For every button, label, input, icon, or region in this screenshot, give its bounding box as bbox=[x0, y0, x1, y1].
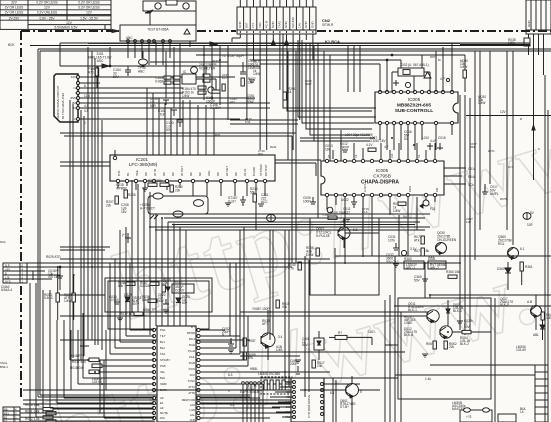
svg-text:R360: R360 bbox=[404, 257, 412, 261]
svg-text:107k: 107k bbox=[388, 238, 395, 242]
svg-text:E1: E1 bbox=[160, 401, 164, 405]
svg-text:BLK-1: BLK-1 bbox=[408, 308, 417, 312]
bus verticals from connector to L004 elbows bbox=[183, 46, 228, 156]
label 3151 MD6.1E5-T1 bbox=[88, 52, 112, 63]
svg-text:BST: BST bbox=[245, 22, 249, 28]
R030 resistor right of IC005 bbox=[460, 55, 468, 92]
svg-text:0.068: 0.068 bbox=[155, 79, 163, 83]
svg-text:ACC: ACC bbox=[261, 200, 268, 204]
svg-text:1C?: 1C? bbox=[508, 165, 514, 169]
svg-text:R016 FF0: R016 FF0 bbox=[70, 354, 84, 358]
svg-text:NC: NC bbox=[216, 172, 220, 176]
svg-text:BL2: BL2 bbox=[160, 346, 165, 350]
svg-text:B/W-4: B/W-4 bbox=[0, 365, 8, 369]
node wire y=58 bbox=[60, 64, 260, 68]
svg-text:S1: S1 bbox=[417, 154, 421, 158]
svg-text:R?: R? bbox=[338, 331, 342, 335]
svg-text:F21: F21 bbox=[430, 207, 436, 211]
svg-text:C3: C3 bbox=[354, 154, 358, 158]
label 8421 1k 17M bbox=[240, 381, 259, 394]
svg-text:PG1: PG1 bbox=[160, 328, 166, 332]
svg-text:1Ck: 1Ck bbox=[468, 183, 474, 187]
connector top stubs bbox=[240, 0, 313, 7]
svg-text:3.4: 3.4 bbox=[278, 335, 283, 339]
svg-text:0.L6: 0.L6 bbox=[362, 210, 368, 214]
bottom-left cluster frame bbox=[60, 278, 212, 329]
svg-text:R361: R361 bbox=[525, 265, 533, 269]
svg-text:(U. 567-605-1): (U. 567-605-1) bbox=[408, 63, 429, 67]
svg-text:PG/N: PG/N bbox=[189, 367, 195, 371]
svg-text:1/4W: 1/4W bbox=[182, 94, 189, 98]
bottom middle pin-row connector bbox=[242, 367, 265, 422]
svg-text:1.4k: 1.4k bbox=[425, 377, 431, 381]
svg-text:16V: 16V bbox=[121, 210, 128, 214]
svg-text:47k 1k: 47k 1k bbox=[48, 275, 58, 279]
svg-text:D360: D360 bbox=[497, 267, 505, 271]
svg-text:SYS: SYS bbox=[5, 279, 11, 283]
svg-text:CLR: CLR bbox=[190, 418, 195, 422]
svg-text:AF DET: AF DET bbox=[225, 166, 229, 176]
svg-text:GND: GND bbox=[284, 21, 288, 29]
svg-text:0.2V UNLESS: 0.2V UNLESS bbox=[37, 10, 57, 14]
svg-text:R051 TP: R051 TP bbox=[143, 308, 156, 312]
bottom horizontals bbox=[23, 340, 300, 404]
svg-text:R087: R087 bbox=[248, 339, 256, 343]
svg-text:0.2V OR LESS: 0.2V OR LESS bbox=[36, 1, 57, 5]
voltage table bbox=[0, 0, 111, 30]
svg-text:D029: D029 bbox=[124, 293, 132, 297]
svg-text:50V: 50V bbox=[464, 325, 471, 329]
svg-text:#SS: #SS bbox=[70, 96, 76, 100]
svg-text:4.P: 4.P bbox=[440, 77, 445, 81]
wires below IC005 to CHAPA bbox=[300, 125, 452, 150]
svg-text:R0?5: R0?5 bbox=[500, 197, 507, 201]
svg-text:3.3 50V: 3.3 50V bbox=[210, 106, 222, 110]
svg-text:5: 5 bbox=[360, 390, 362, 394]
svg-text:68k: 68k bbox=[118, 284, 124, 288]
extra mid rails bbox=[27, 230, 309, 397]
svg-text:AF IN: AF IN bbox=[243, 169, 247, 176]
horizontal bus top bbox=[8, 42, 530, 47]
svg-text:AT OUT: AT OUT bbox=[180, 166, 184, 176]
box around Q003 bbox=[310, 218, 379, 295]
svg-text:SCE: SCE bbox=[135, 170, 139, 176]
svg-text:L010: L010 bbox=[422, 136, 429, 140]
svg-text:H-P RECT: H-P RECT bbox=[140, 206, 155, 210]
CHAPA bottom pin drops bbox=[345, 197, 417, 263]
svg-text:B IN: B IN bbox=[117, 171, 121, 176]
svg-text:TAA: TAA bbox=[160, 352, 165, 356]
C156 cluster bbox=[222, 54, 256, 86]
svg-text:ABL: ABL bbox=[533, 333, 539, 337]
thick 12V rail right bbox=[88, 43, 530, 44]
svg-text:1/4W: 1/4W bbox=[460, 65, 467, 69]
svg-text:MB88Z02H-605: MB88Z02H-605 bbox=[397, 103, 431, 109]
svg-text:FZ1: FZ1 bbox=[435, 187, 439, 192]
svg-text:R044: R044 bbox=[468, 175, 476, 179]
svg-text:50?: 50? bbox=[182, 301, 188, 305]
svg-text:200P: 200P bbox=[290, 362, 297, 366]
C067 R017 bbox=[290, 359, 325, 374]
wires below IC201 pins bbox=[118, 182, 265, 230]
bottom resistor rows bbox=[20, 403, 155, 422]
L004 elbow bus into CHAPA region bbox=[298, 40, 376, 141]
nested frame lines mid-left bbox=[60, 43, 180, 360]
svg-text:C?D RGB DRIVE: C?D RGB DRIVE bbox=[307, 395, 311, 418]
ground symbols below IC201 bbox=[142, 186, 231, 206]
svg-text:I1: I1 bbox=[73, 86, 76, 90]
svg-text:6.4: 6.4 bbox=[330, 391, 335, 395]
svg-text:32V: 32V bbox=[11, 1, 18, 5]
IC201 to CHAPA link wires bbox=[203, 39, 360, 372]
horizontal bundle above bottom cluster bbox=[23, 214, 430, 390]
right bottom tall box bbox=[516, 345, 548, 422]
svg-text:RESP FOR: RESP FOR bbox=[182, 398, 195, 402]
svg-text:PAL3: PAL3 bbox=[189, 337, 196, 341]
svg-text:SCK: SCK bbox=[190, 373, 196, 377]
svg-text:16V: 16V bbox=[380, 139, 387, 143]
svg-text:1AV: 1AV bbox=[297, 23, 301, 28]
svg-text:NC: NC bbox=[171, 172, 175, 176]
svg-text:VC-FILTER: VC-FILTER bbox=[199, 66, 216, 70]
svg-text:NC: NC bbox=[162, 172, 166, 176]
svg-text:SITW-R: SITW-R bbox=[322, 23, 334, 27]
svg-text:ON-SCREEN: ON-SCREEN bbox=[437, 238, 457, 242]
svg-text:GND: GND bbox=[238, 21, 242, 29]
D360 R361 diode bbox=[497, 262, 533, 290]
bottom right boxes bbox=[330, 377, 526, 422]
svg-text:NC: NC bbox=[144, 172, 148, 176]
Q003 transistor H-PULSE bbox=[316, 211, 358, 248]
horizontals upper mid to IC005 bbox=[196, 54, 465, 124]
resistor P150 bbox=[88, 66, 99, 88]
Q360 RGL transistor bbox=[498, 235, 525, 260]
C017 50V AMP label right bbox=[478, 95, 499, 196]
svg-text:C/A: C/A bbox=[390, 153, 394, 158]
C052 R087 R088 cluster bbox=[222, 327, 256, 360]
IC201 left exit wires bbox=[60, 162, 110, 166]
svg-text:IC201: IC201 bbox=[136, 157, 149, 162]
svg-text:A#: A# bbox=[160, 396, 164, 400]
svg-text:15k: 15k bbox=[142, 298, 148, 302]
right mid rails bbox=[460, 51, 548, 340]
svg-text:SIRR: SIRR bbox=[160, 382, 167, 386]
svg-text:B2 YTHS GB#/F-15EX: B2 YTHS GB#/F-15EX bbox=[61, 93, 65, 119]
svg-text:U: U bbox=[74, 117, 76, 121]
S150 33uH label bbox=[150, 54, 244, 120]
svg-text:50V: 50V bbox=[166, 128, 173, 132]
svg-text:B2: B2 bbox=[4, 415, 8, 419]
svg-text:100P: 100P bbox=[303, 199, 310, 203]
svg-text:5.6k: 5.6k bbox=[245, 120, 251, 124]
plus cap symbol left bbox=[122, 233, 131, 243]
IC filter cluster right of left block bbox=[155, 63, 216, 103]
svg-text:1/4W: 1/4W bbox=[478, 101, 485, 105]
svg-text:R: R bbox=[520, 117, 522, 121]
bottom-right RGB IC bbox=[270, 378, 336, 422]
svg-text:VD1: VD1 bbox=[258, 22, 262, 28]
svg-text:GND: GND bbox=[527, 20, 531, 28]
svg-text:4.7: 4.7 bbox=[384, 145, 389, 149]
Q017 bottom right transistor bbox=[500, 295, 542, 330]
components above CHAPA bbox=[325, 130, 446, 159]
svg-text:SOUND: SOUND bbox=[291, 16, 295, 28]
svg-text:R051: R051 bbox=[408, 185, 412, 192]
capacitor C154 bbox=[113, 66, 131, 79]
svg-text:SERVO DRIVE CIRCUIT: SERVO DRIVE CIRCUIT bbox=[56, 85, 60, 119]
svg-text:1/4W: 1/4W bbox=[64, 299, 71, 303]
R360 D081 boxes bbox=[404, 257, 460, 282]
svg-text:VAL: VAL bbox=[160, 370, 166, 374]
svg-text:BB: BB bbox=[4, 407, 8, 411]
left edge labels bbox=[0, 240, 8, 369]
svg-text:PG/B: PG/B bbox=[189, 361, 195, 365]
svg-text:ST-B+: ST-B+ bbox=[340, 405, 349, 409]
svg-text:ATTU: ATTU bbox=[188, 385, 195, 389]
svg-text:GND: GND bbox=[271, 21, 275, 29]
5V labels bbox=[403, 211, 535, 227]
watermark bbox=[30, 96, 551, 422]
vertical wires left column bundle bbox=[88, 47, 102, 350]
svg-text:473: 473 bbox=[230, 100, 235, 104]
svg-text:R017 560: R017 560 bbox=[72, 360, 86, 364]
caps right of IC201: ST16 C211 bbox=[228, 187, 269, 206]
R072 R073 resistors bbox=[414, 235, 435, 259]
IC005 CX795B CHAPA-DISPRA bbox=[321, 153, 444, 196]
svg-text:L/10: L/10 bbox=[190, 403, 196, 407]
svg-text:AT IN: AT IN bbox=[153, 169, 157, 176]
svg-text:R205 220: R205 220 bbox=[148, 179, 162, 183]
svg-text:103-69: 103-69 bbox=[516, 348, 526, 352]
top right connector bbox=[466, 0, 551, 180]
svg-text:6.3: 6.3 bbox=[230, 403, 235, 407]
svg-text:0.8V - 25V: 0.8V - 25V bbox=[39, 16, 55, 20]
C018 cap cluster left bbox=[48, 266, 63, 290]
svg-text:RA3: RA3 bbox=[0, 240, 6, 244]
svg-text:#10: #10 bbox=[160, 416, 165, 420]
svg-text:1/38E: 1/38E bbox=[404, 321, 412, 325]
inner frame around IC201 bbox=[60, 110, 296, 360]
svg-text:4.LP: 4.LP bbox=[430, 139, 437, 143]
svg-text:10E: 10E bbox=[546, 316, 551, 320]
long horizontal rails mid bbox=[27, 227, 551, 316]
svg-text:AF?: AF? bbox=[262, 322, 268, 326]
svg-text:10 50V: 10 50V bbox=[109, 298, 120, 302]
svg-text:D081: D081 bbox=[428, 257, 436, 261]
svg-text:5/16A-4: 5/16A-4 bbox=[1, 288, 12, 292]
svg-text:12V: 12V bbox=[86, 10, 93, 14]
Q601 transistor bbox=[300, 376, 362, 422]
svg-text:12V: 12V bbox=[71, 75, 76, 79]
C031 C032 caps bbox=[386, 235, 417, 264]
svg-text:2V OR LESS: 2V OR LESS bbox=[5, 10, 24, 14]
main frame double border bbox=[38, 49, 551, 397]
svg-text:BLK: BLK bbox=[160, 376, 165, 380]
svg-text:103: 103 bbox=[222, 76, 227, 80]
tall IC right pin stubs bbox=[200, 330, 380, 418]
svg-text:MUTE: MUTE bbox=[160, 411, 168, 415]
svg-text:SYSTEM: SYSTEM bbox=[259, 164, 263, 176]
svg-text:4.1V: 4.1V bbox=[366, 143, 373, 147]
svg-text:SUB-CONTROLL: SUB-CONTROLL bbox=[395, 108, 433, 114]
cluster components R055 R057 R030 bbox=[118, 278, 194, 293]
svg-text:B.GND: B.GND bbox=[252, 167, 256, 176]
svg-text:STD-BY: STD-BY bbox=[160, 358, 170, 362]
svg-text:R0?1: R0?1 bbox=[430, 55, 437, 59]
test point TP15 bbox=[138, 59, 148, 73]
left rotated IC block bbox=[54, 74, 80, 122]
svg-text:3.3/50: 3.3/50 bbox=[370, 139, 379, 143]
svg-text:22k: 22k bbox=[106, 203, 112, 207]
svg-text:BLK-1: BLK-1 bbox=[453, 309, 462, 313]
svg-text:(+): (+) bbox=[122, 233, 126, 237]
svg-text:2V OR LESS: 2V OR LESS bbox=[5, 6, 24, 10]
svg-text:R030 1.8k: R030 1.8k bbox=[25, 403, 40, 407]
svg-text:ABC: ABC bbox=[138, 69, 145, 73]
tall IC left pin stubs bbox=[70, 330, 154, 418]
right edge resistor diode cluster bbox=[533, 312, 551, 340]
svg-text:0.2V OR LESS: 0.2V OR LESS bbox=[78, 6, 99, 10]
svg-text:B: B bbox=[222, 333, 224, 337]
vertical bundle into tall IC top bbox=[156, 214, 186, 326]
svg-text:LM308 2SC850: LM308 2SC850 bbox=[258, 372, 280, 376]
svg-text:LFC-380(M9): LFC-380(M9) bbox=[129, 162, 158, 168]
extra small boxes in top cluster bbox=[203, 66, 225, 93]
X002 crystal above IC005 bbox=[380, 43, 452, 92]
svg-text:87k: 87k bbox=[248, 356, 254, 360]
svg-text:22k: 22k bbox=[449, 345, 455, 349]
svg-text:GND: GND bbox=[311, 21, 315, 29]
svg-text:A70: A70 bbox=[88, 70, 94, 74]
svg-text:BL1: BL1 bbox=[160, 340, 165, 344]
bottom long verticals bbox=[385, 256, 495, 422]
svg-text:IC005: IC005 bbox=[408, 97, 421, 102]
svg-text:PG+B: PG+B bbox=[188, 349, 195, 353]
bottom left wire bundle verticals bbox=[110, 180, 150, 340]
svg-text:BLK-B: BLK-B bbox=[404, 333, 413, 337]
svg-text:C015: C015 bbox=[438, 136, 446, 140]
svg-text:NC: NC bbox=[189, 172, 193, 176]
svg-text:IC005: IC005 bbox=[376, 168, 389, 173]
svg-text:PG5: PG5 bbox=[160, 364, 166, 368]
svg-text:6.8: 6.8 bbox=[160, 112, 165, 116]
circled plus symbol right bbox=[523, 213, 531, 220]
svg-text:FB/SW: FB/SW bbox=[187, 331, 196, 335]
cluster lower: C019 D021 R036 C022 D023 bbox=[109, 293, 190, 306]
capacitor C150 C152 cluster bbox=[150, 93, 183, 132]
svg-text:ATTD: ATTD bbox=[188, 391, 195, 395]
left connector CN mid bbox=[1, 263, 60, 292]
svg-text:R071: R071 bbox=[488, 149, 495, 153]
wires from left block pins bbox=[80, 77, 271, 125]
svg-text:Y008? 100P: Y008? 100P bbox=[252, 307, 270, 311]
diode D008 bottom bbox=[302, 331, 324, 360]
svg-text:AMPL: AMPL bbox=[490, 192, 499, 196]
svg-text:50V: 50V bbox=[414, 278, 421, 282]
middle vertical wires below connector bbox=[283, 34, 376, 263]
svg-text:SYNC: SYNC bbox=[188, 379, 195, 383]
svg-text:11R: 11R bbox=[466, 220, 471, 224]
Q011 transistor cluster in big box bbox=[398, 298, 491, 399]
cluster below IC201: C218 R206 R210 bbox=[106, 179, 183, 214]
H-P RECT loop bbox=[140, 193, 208, 219]
svg-text:11R: 11R bbox=[527, 223, 533, 227]
svg-text:OUTPUT: OUTPUT bbox=[264, 164, 268, 176]
svg-text:B1: B1 bbox=[126, 172, 130, 176]
svg-text:1/4W: 1/4W bbox=[393, 209, 400, 213]
svg-text:8: 8 bbox=[84, 84, 86, 88]
svg-text:2V-25V: 2V-25V bbox=[9, 16, 20, 20]
circled 1 symbol bbox=[267, 214, 276, 221]
svg-text:RGL: RGL bbox=[498, 242, 505, 246]
bottom-left connector bbox=[3, 407, 20, 422]
svg-text:HB8L: HB8L bbox=[250, 367, 258, 371]
svg-text:L/1D: L/1D bbox=[190, 408, 196, 412]
svg-text:R211: R211 bbox=[270, 145, 277, 149]
svg-text:TA/G: TA/G bbox=[278, 21, 282, 28]
svg-text:H-PULSE: H-PULSE bbox=[316, 234, 330, 238]
svg-text:R360 15k: R360 15k bbox=[446, 270, 460, 274]
svg-text:22k: 22k bbox=[175, 188, 181, 192]
svg-text:BCK: BCK bbox=[8, 43, 15, 47]
IC201 LFC-380(M9) bbox=[110, 150, 275, 183]
svg-text:K1 BCA: K1 BCA bbox=[325, 39, 340, 44]
svg-text:GND: GND bbox=[304, 21, 308, 29]
svg-text:D202A: D202A bbox=[140, 284, 151, 288]
Q013 transistor bottom-center bbox=[252, 300, 290, 360]
svg-text:23k: 23k bbox=[317, 364, 323, 368]
svg-text:1.5V - 25.5V: 1.5V - 25.5V bbox=[80, 16, 99, 20]
cascade wires into tall IC left bbox=[30, 283, 154, 421]
svg-text:12V: 12V bbox=[66, 21, 73, 25]
svg-text:+?2: +?2 bbox=[466, 415, 472, 419]
svg-text:R018 040: R018 040 bbox=[70, 366, 84, 370]
TEST BT-086A box bbox=[112, 25, 196, 65]
svg-text:ATk: ATk bbox=[414, 238, 420, 242]
svg-text:12V: 12V bbox=[500, 110, 507, 114]
svg-text:D4: D4 bbox=[404, 137, 408, 141]
fan verticals above tall IC pins bbox=[106, 263, 248, 390]
verticals pair mid bbox=[240, 227, 548, 422]
svg-text:A.OUT: A.OUT bbox=[363, 184, 367, 192]
C051 R050 cluster mid-top bbox=[247, 60, 296, 104]
svg-text:5.5V(MAX) 6.5V: 5.5V(MAX) 6.5V bbox=[54, 26, 78, 30]
R040 resistor bbox=[288, 262, 301, 270]
R099 resistor bbox=[306, 246, 319, 257]
svg-text:22k: 22k bbox=[212, 62, 217, 66]
svg-text:R030: R030 bbox=[174, 280, 182, 284]
IC005 SUB-CONTROLL bbox=[375, 90, 458, 124]
svg-text:PG/L: PG/L bbox=[189, 355, 195, 359]
svg-text:6.1: 6.1 bbox=[520, 247, 525, 251]
svg-text:PG/E: PG/E bbox=[189, 343, 195, 347]
svg-text:12V: 12V bbox=[44, 6, 51, 10]
svg-text:BLK-2: BLK-2 bbox=[460, 342, 469, 346]
top middle connector CN bbox=[237, 7, 334, 34]
R0 resistor bottom horizontal bbox=[329, 330, 376, 345]
components below CHAPA bbox=[303, 196, 436, 217]
svg-text:A.B: A.B bbox=[527, 300, 532, 304]
svg-text:NC: NC bbox=[198, 172, 202, 176]
svg-text:K: K bbox=[538, 147, 540, 151]
Q030 ON-SCREEN transistor bbox=[436, 231, 457, 255]
svg-text:50W: 50W bbox=[247, 100, 254, 104]
svg-text:11.4: 11.4 bbox=[84, 94, 90, 98]
svg-text:A#: A# bbox=[160, 406, 164, 410]
svg-text:VOL: VOL bbox=[207, 170, 211, 176]
svg-text:TEST BT-086A: TEST BT-086A bbox=[147, 28, 169, 32]
svg-text:50V: 50V bbox=[158, 299, 165, 303]
